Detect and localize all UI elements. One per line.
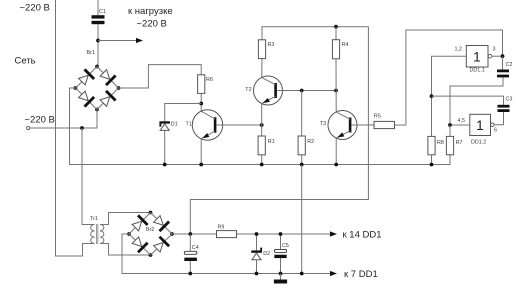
svg-text:Tr1: Tr1 — [90, 216, 98, 222]
diode Br2 upper-right — [154, 216, 164, 226]
wire Tr1 secondary top to Br2 — [100, 213, 151, 225]
wire mains top to C1 — [97, 0, 99, 15]
svg-text:C1: C1 — [99, 9, 106, 15]
terminal circle — [27, 126, 30, 129]
capacitor C3 — [498, 105, 510, 108]
wire feedback C3 top line — [432, 96, 504, 105]
node T2 base / R4 / T3 collector — [334, 89, 338, 93]
resistor R7 — [449, 125, 451, 136]
wire R2 top riser — [301, 91, 303, 137]
node R6/D1/T1 collector — [199, 102, 203, 106]
transistor T3 — [328, 111, 357, 140]
wire Br1 plus to R6 — [119, 65, 202, 88]
svg-text:к 14 DD1: к 14 DD1 — [343, 229, 382, 240]
diode Br2 lower-right — [154, 243, 164, 253]
node R2 tap — [300, 89, 304, 93]
diode Br2 lower-left — [132, 237, 142, 247]
node R8 at rail — [430, 163, 434, 167]
node Br2 right — [170, 232, 174, 236]
wire node to D1 top — [165, 104, 202, 122]
svg-text:T1: T1 — [186, 122, 192, 128]
svg-text:R4: R4 — [342, 42, 349, 48]
svg-text:6: 6 — [494, 128, 497, 134]
node Br2 bottom — [149, 253, 153, 257]
transistor T1 — [192, 110, 222, 140]
svg-text:~220 В: ~220 В — [25, 115, 55, 126]
svg-text:C5: C5 — [282, 243, 289, 249]
svg-text:R5: R5 — [374, 114, 381, 120]
node R8 / C3 feedback — [430, 94, 434, 98]
node Br1 bottom — [95, 108, 99, 112]
wire D1 anode down to rail — [164, 130, 166, 164]
svg-text:T2: T2 — [245, 87, 251, 93]
wire R8 bottom to rail — [431, 155, 433, 165]
node C4 at bottom line — [188, 272, 192, 276]
wire DD1.2 input — [450, 124, 470, 126]
svg-text:C3: C3 — [506, 96, 513, 102]
node Br1 top — [95, 65, 99, 69]
svg-text:1: 1 — [473, 49, 481, 65]
wire mains bottom line to Br1 bottom — [30, 110, 97, 129]
node D2 at bottom line — [255, 272, 259, 276]
wire C2 bottom to DD1.2 input — [450, 77, 503, 125]
wire C1 bottom to Br1 top — [97, 24, 99, 66]
svg-text:C2: C2 — [506, 62, 513, 68]
resistor R8 — [428, 136, 435, 154]
node Br2 left — [127, 232, 131, 236]
capacitor C4 — [189, 234, 191, 251]
wire tap down to Tr1 primary top — [82, 128, 95, 225]
wire T2 base line — [283, 90, 337, 92]
node C5 at bottom line — [279, 272, 283, 276]
svg-text:R2: R2 — [307, 139, 314, 145]
node DD1.2 input / R7 — [448, 123, 452, 127]
wire R1 bottom to rail — [261, 155, 263, 165]
wire R4 bottom to T3 collector — [335, 59, 337, 112]
svg-text:R9: R9 — [218, 225, 225, 231]
wire R6 bottom to node — [200, 93, 202, 111]
ground — [280, 274, 282, 280]
gate U2 DD1.2 — [470, 114, 491, 135]
wire T3 emitter to rail — [335, 138, 337, 164]
wire Tr1 secondary bottom to Br2 — [100, 244, 151, 256]
svg-text:Br2: Br2 — [146, 227, 154, 233]
svg-text:T3: T3 — [320, 121, 326, 127]
resistor R5 — [374, 121, 395, 128]
svg-text:R7: R7 — [456, 140, 463, 146]
node Br1 left — [74, 86, 78, 90]
wire rail to bottom supply line — [301, 165, 303, 274]
node D1 at rail — [163, 163, 167, 167]
node T3 emitter at rail — [334, 163, 338, 167]
svg-text:~220 В: ~220 В — [20, 3, 50, 14]
svg-text:4,5: 4,5 — [458, 118, 466, 124]
node junction at load tap — [96, 39, 100, 43]
svg-text:DD1.2: DD1.2 — [471, 140, 486, 146]
resistor R1 — [261, 125, 263, 136]
node supply line / ground riser — [300, 272, 304, 276]
wire top rail VCC — [190, 27, 368, 234]
wire C4 bottom to supply line — [189, 261, 191, 274]
resistor R9 — [217, 231, 237, 238]
svg-text:R1: R1 — [268, 139, 275, 145]
wire load arrow — [98, 40, 137, 42]
transistor T2 — [254, 76, 283, 105]
node R4 tap on top rail — [334, 25, 338, 29]
wire R3 to T2 collector — [261, 59, 263, 78]
wire R2 bottom to rail — [301, 155, 303, 165]
node R2 at rail — [300, 163, 304, 167]
svg-text:DD1.1: DD1.1 — [470, 68, 485, 74]
svg-text:R6: R6 — [206, 77, 213, 83]
node C4 tap — [188, 232, 192, 236]
capacitor C5 — [280, 234, 282, 249]
svg-text:R3: R3 — [268, 42, 275, 48]
svg-text:1,2: 1,2 — [455, 47, 463, 53]
svg-text:к 7 DD1: к 7 DD1 — [344, 269, 378, 280]
svg-text:1: 1 — [476, 117, 484, 133]
resistor R4 — [335, 27, 337, 40]
wire mains left vertical leg — [56, 0, 95, 256]
svg-text:3: 3 — [493, 47, 496, 53]
zener D2 — [256, 234, 258, 250]
diode Br1 lower-left — [79, 91, 89, 101]
bridge Br2 diamond wires — [129, 213, 172, 256]
svg-text:~220 В: ~220 В — [137, 19, 167, 30]
wire R5 to DD1.1 output rail — [395, 30, 503, 125]
node pin3 / C2 / top right rail — [501, 54, 505, 58]
node Br2 top — [149, 211, 153, 215]
node R1 at rail — [260, 163, 264, 167]
wire T2 emitter down to node — [261, 104, 263, 125]
wire C3 bottom to DD1.2 output — [494, 112, 503, 125]
node mains to transformer tap — [80, 126, 84, 130]
node T1 emitter at rail — [199, 163, 203, 167]
svg-text:D2: D2 — [263, 251, 270, 257]
svg-text:C4: C4 — [192, 245, 199, 251]
node T1 base / T2 emitter / R1 — [260, 123, 264, 127]
resistor R6 — [198, 75, 205, 94]
node Br1 right — [117, 86, 121, 90]
diode Br1 upper-left — [79, 75, 89, 85]
capacitor C1 — [92, 15, 105, 18]
diode Br1 lower-right — [100, 97, 110, 107]
svg-text:к нагрузке: к нагрузке — [128, 6, 173, 17]
wire Br1 minus to ground rail — [70, 88, 451, 165]
wire DD1.1 output to C2 — [492, 55, 503, 57]
resistor R3 — [258, 40, 265, 59]
wire T1 emitter to rail — [200, 139, 202, 165]
svg-text:Сеть: Сеть — [15, 56, 36, 67]
wire T1 base to T2 emitter node — [223, 124, 262, 126]
wire Br2 plus to R9 — [172, 233, 217, 235]
svg-text:R8: R8 — [437, 140, 444, 146]
diode Br1 upper-right — [100, 70, 110, 80]
svg-text:D1: D1 — [171, 122, 178, 128]
diode Br2 upper-left — [132, 221, 142, 231]
wire Br2 minus to bottom supply line — [122, 234, 331, 274]
capacitor C2 — [497, 70, 509, 73]
zener D1 — [159, 121, 170, 123]
resistor R2 — [298, 136, 305, 155]
bridge Br1 diamond wires — [76, 67, 119, 110]
svg-text:Br1: Br1 — [87, 50, 95, 56]
wire node to C2 top — [502, 56, 504, 69]
gate U1 DD1.1 — [466, 46, 488, 68]
wire DD1.1 input line — [432, 56, 467, 136]
wire R9 to DD1 supply arrow — [237, 233, 331, 235]
